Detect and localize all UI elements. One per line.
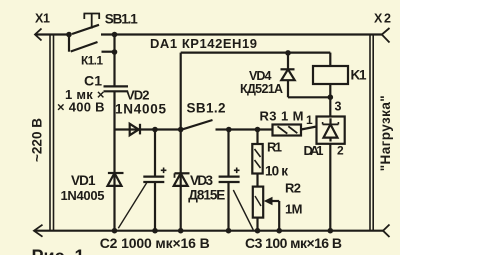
svg-text:VD3: VD3 — [190, 173, 213, 188]
svg-text:R3 1 М: R3 1 М — [260, 109, 304, 124]
svg-text:~220 В: ~220 В — [30, 118, 45, 162]
svg-text:1 М: 1 М — [285, 202, 303, 217]
svg-text:DA1 КР142ЕН19: DA1 КР142ЕН19 — [150, 36, 257, 51]
svg-text:Рис. 1: Рис. 1 — [32, 247, 85, 255]
svg-text:Д815Е: Д815Е — [188, 188, 225, 203]
svg-text:VD4: VD4 — [249, 69, 272, 83]
svg-text:C3 100 мк×16 В: C3 100 мк×16 В — [245, 235, 342, 251]
svg-text:1N4005: 1N4005 — [61, 188, 105, 203]
svg-text:K1: K1 — [351, 68, 367, 83]
svg-text:R2: R2 — [285, 181, 301, 196]
svg-text:DA1: DA1 — [304, 143, 324, 158]
svg-text:SB1.2: SB1.2 — [187, 101, 226, 116]
svg-text:X1: X1 — [35, 12, 50, 26]
svg-text:VD1: VD1 — [71, 173, 96, 188]
svg-text:10 к: 10 к — [265, 164, 288, 179]
svg-text:1: 1 — [306, 113, 313, 127]
svg-text:"Нагрузка": "Нагрузка" — [378, 95, 393, 171]
svg-text:VD2: VD2 — [126, 88, 150, 103]
svg-text:2: 2 — [337, 144, 344, 158]
svg-text:1N4005: 1N4005 — [115, 102, 166, 117]
svg-text:SB1.1: SB1.1 — [105, 12, 138, 27]
svg-text:C2 1000 мк×16 В: C2 1000 мк×16 В — [100, 235, 210, 251]
svg-text:3: 3 — [335, 100, 342, 114]
svg-text:К1.1: К1.1 — [81, 54, 103, 68]
svg-text:R1: R1 — [267, 140, 282, 155]
svg-text:× 400 В: × 400 В — [57, 100, 105, 115]
svg-text:КД521А: КД521А — [240, 82, 283, 96]
